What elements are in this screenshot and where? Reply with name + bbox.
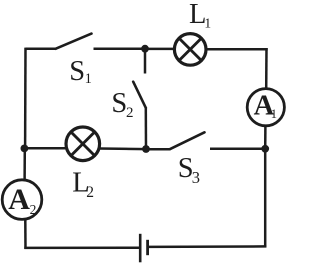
node D (junction right) <box>261 145 269 153</box>
node C (junction middle) <box>142 145 150 153</box>
lamp L1 <box>174 34 206 66</box>
wire lamp L2 to node C <box>99 147 147 150</box>
ammeter A1 <box>247 89 284 126</box>
wire S1 contact to node A <box>94 47 147 50</box>
wire ammeter A2 up to node B <box>23 149 26 181</box>
lamp L2 <box>66 127 100 161</box>
wire node C to switch S3 <box>146 148 171 151</box>
wire S2 upper fixed segment from node A <box>144 49 147 74</box>
wire top-left horizontal segment <box>26 48 57 51</box>
svg-text:3: 3 <box>192 168 200 187</box>
svg-text:2: 2 <box>86 184 94 201</box>
svg-text:1: 1 <box>85 71 92 87</box>
wire bottom-right horizontal to battery <box>149 245 266 248</box>
wire top-right corner down to ammeter A1 <box>265 48 268 89</box>
switch S2 <box>133 82 146 108</box>
switch S1 <box>56 34 92 49</box>
node A (junction top) <box>141 45 149 53</box>
svg-text:S: S <box>69 56 85 87</box>
wire left vertical upper segment <box>24 48 27 149</box>
ammeter A2 <box>2 180 42 220</box>
svg-text:2: 2 <box>126 105 134 121</box>
wire bottom-left horizontal from battery <box>24 246 139 249</box>
label L1 <box>189 0 211 30</box>
svg-text:1: 1 <box>204 15 211 30</box>
wire S2 lower segment down to node C <box>145 107 148 150</box>
wire node A to lamp L1 <box>145 48 175 51</box>
label L2 <box>72 167 94 201</box>
svg-text:A: A <box>8 183 30 216</box>
battery <box>140 234 147 262</box>
wire S3 contact to node D <box>210 148 265 151</box>
label S1 <box>69 56 92 87</box>
svg-text:1: 1 <box>271 107 277 121</box>
label S2 <box>111 88 133 121</box>
label S3 <box>178 153 200 187</box>
switch S3 <box>170 132 205 149</box>
node B (junction left) <box>21 145 29 153</box>
svg-text:S: S <box>111 88 127 119</box>
wire right vertical lower segment <box>264 149 267 248</box>
wire bottom-left corner up to ammeter A2 <box>24 219 27 249</box>
wire lamp L1 to top-right corner <box>206 48 268 51</box>
wire ammeter A1 down to node D <box>264 126 267 150</box>
wire node B to lamp L2 <box>24 147 67 150</box>
svg-text:2: 2 <box>30 202 37 217</box>
